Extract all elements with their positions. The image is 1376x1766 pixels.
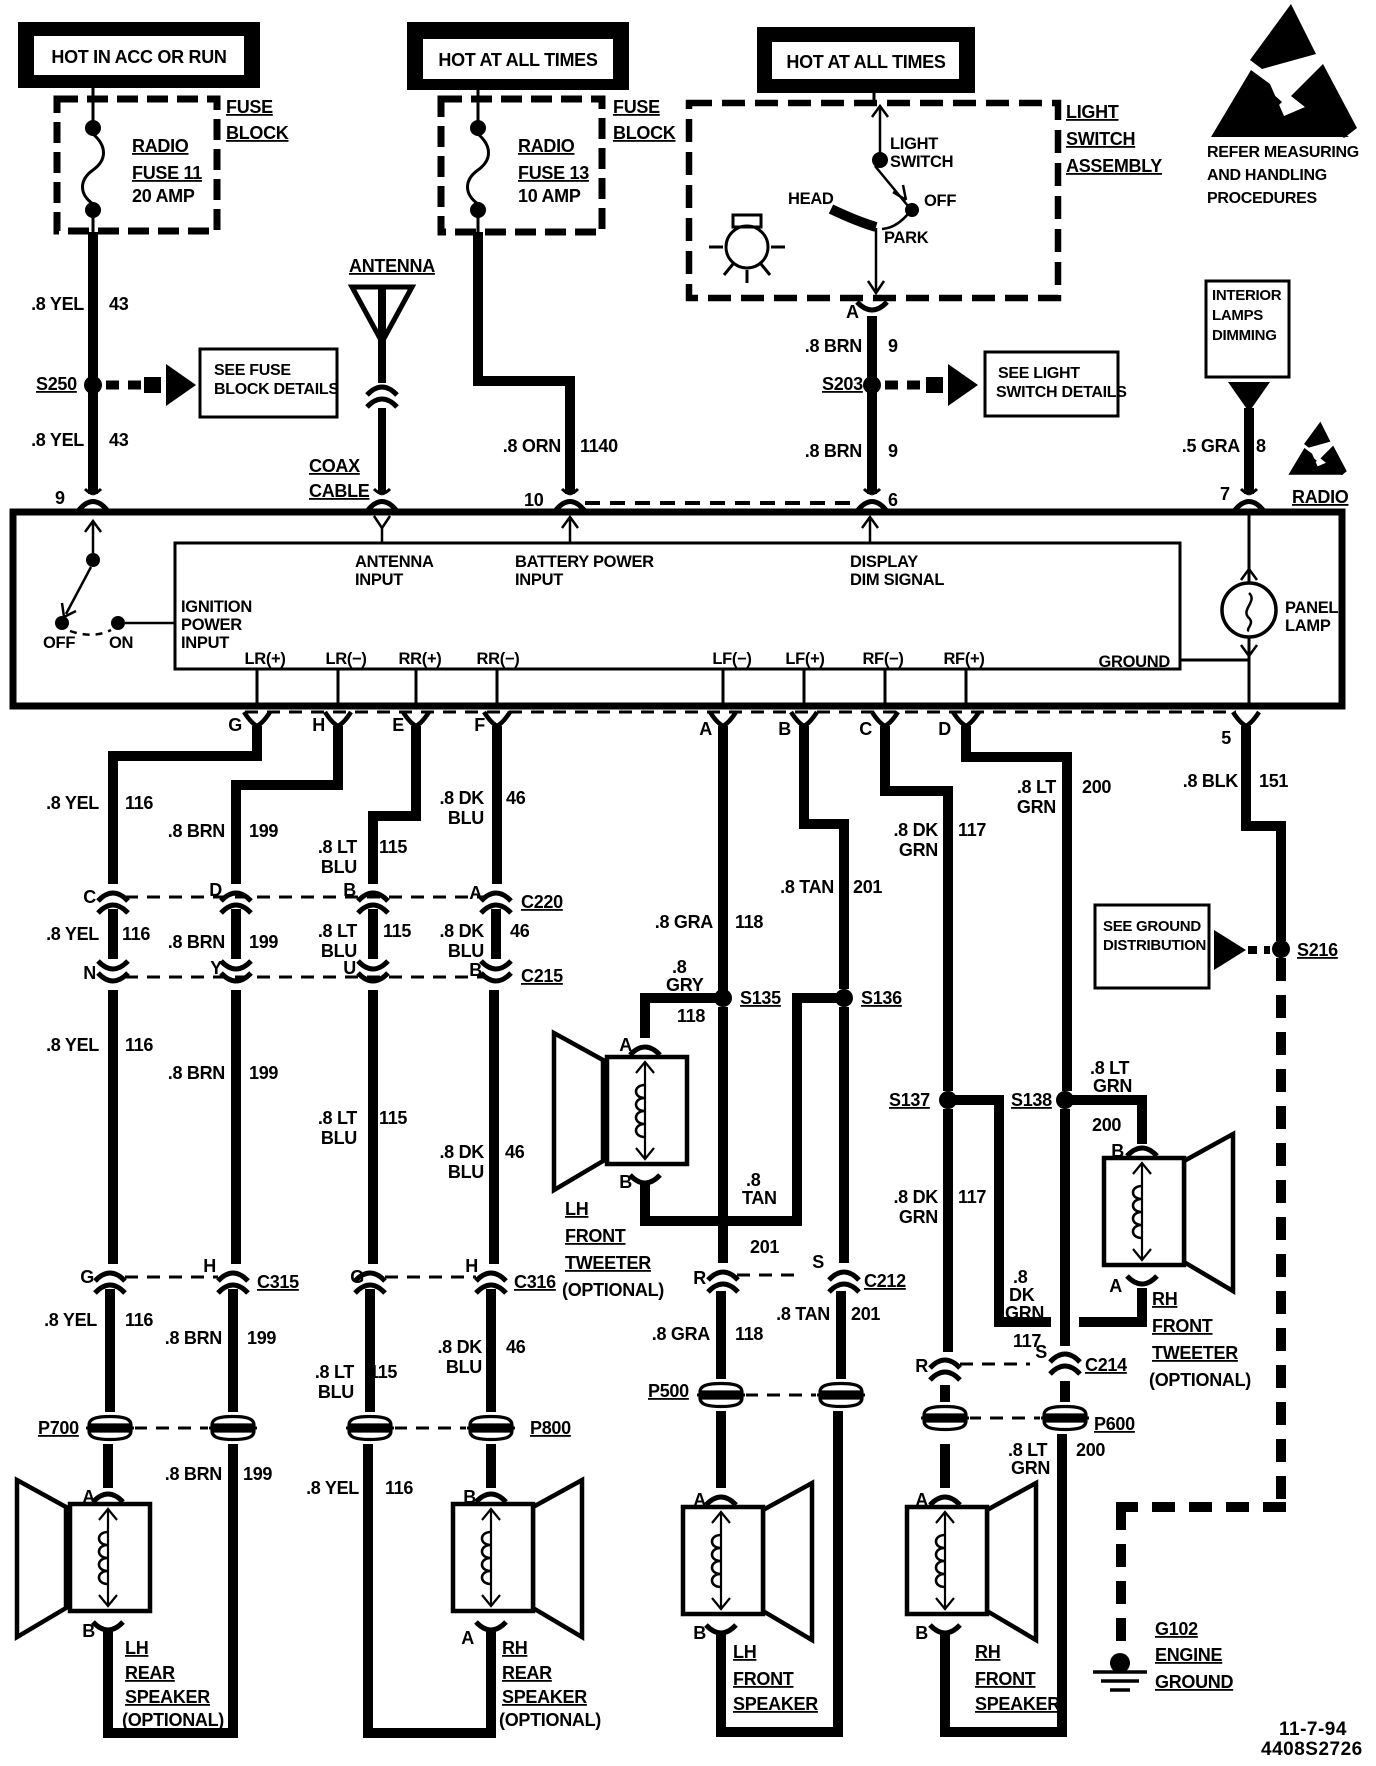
svg-text:.8 BRN: .8 BRN [165, 1464, 222, 1484]
svg-text:.8 YEL: .8 YEL [46, 793, 99, 813]
svg-text:B: B [469, 960, 482, 980]
svg-text:.8 LT: .8 LT [315, 1362, 354, 1382]
svg-text:FRONT: FRONT [565, 1226, 626, 1246]
svg-text:SWITCH: SWITCH [1066, 129, 1135, 149]
svg-text:6: 6 [888, 490, 898, 510]
svg-text:S135: S135 [740, 988, 781, 1008]
svg-text:116: 116 [125, 1310, 153, 1330]
svg-text:.8 BLK: .8 BLK [1183, 771, 1239, 791]
svg-text:SPEAKER: SPEAKER [975, 1694, 1060, 1714]
svg-text:P800: P800 [530, 1418, 571, 1438]
svg-text:S203: S203 [822, 374, 863, 394]
svg-text:ON: ON [109, 634, 133, 652]
svg-text:BLOCK DETAILS: BLOCK DETAILS [214, 381, 339, 398]
svg-text:201: 201 [851, 1304, 880, 1324]
svg-text:FRONT: FRONT [975, 1669, 1036, 1689]
svg-text:RR(+): RR(+) [399, 650, 442, 668]
svg-text:Y: Y [210, 958, 222, 978]
svg-text:DIMMING: DIMMING [1212, 327, 1277, 344]
svg-text:TWEETER: TWEETER [1152, 1343, 1238, 1363]
svg-text:.8 LT: .8 LT [1090, 1058, 1129, 1078]
svg-text:H: H [465, 1256, 478, 1276]
svg-text:BATTERY POWER: BATTERY POWER [515, 553, 654, 571]
svg-text:9: 9 [888, 336, 898, 356]
svg-text:REFER MEASURING: REFER MEASURING [1207, 144, 1359, 161]
svg-text:199: 199 [247, 1328, 276, 1348]
svg-text:OFF: OFF [924, 192, 956, 210]
svg-text:PROCEDURES: PROCEDURES [1207, 190, 1318, 207]
svg-text:BLU: BLU [321, 857, 357, 877]
svg-text:B: B [463, 1487, 476, 1507]
svg-text:SWITCH: SWITCH [890, 153, 953, 171]
svg-text:B: B [619, 1172, 632, 1192]
svg-text:200: 200 [1092, 1115, 1121, 1135]
svg-text:S: S [812, 1252, 824, 1272]
svg-text:116: 116 [125, 793, 153, 813]
svg-text:8: 8 [1256, 436, 1266, 456]
svg-text:HEAD: HEAD [788, 190, 834, 208]
svg-text:9: 9 [888, 441, 898, 461]
svg-text:LH: LH [125, 1638, 148, 1658]
svg-text:LAMPS: LAMPS [1212, 307, 1263, 324]
svg-text:115: 115 [379, 1108, 407, 1128]
svg-text:.8 LT: .8 LT [1017, 777, 1056, 797]
svg-text:C316: C316 [514, 1272, 556, 1292]
svg-text:200: 200 [1076, 1440, 1105, 1460]
svg-text:.8 LT: .8 LT [318, 1108, 357, 1128]
svg-text:ASSEMBLY: ASSEMBLY [1066, 156, 1162, 176]
svg-text:199: 199 [243, 1464, 272, 1484]
svg-text:R: R [915, 1356, 928, 1376]
svg-text:RF(−): RF(−) [862, 650, 903, 668]
svg-text:RH: RH [975, 1642, 1000, 1662]
svg-text:.8: .8 [746, 1170, 761, 1190]
svg-text:.8 TAN: .8 TAN [776, 1304, 830, 1324]
svg-text:FUSE 11: FUSE 11 [132, 163, 202, 183]
svg-text:REAR: REAR [502, 1663, 552, 1683]
svg-text:N: N [83, 963, 96, 983]
svg-text:200: 200 [1082, 777, 1111, 797]
svg-text:CABLE: CABLE [309, 481, 370, 501]
svg-text:SPEAKER: SPEAKER [733, 1694, 818, 1714]
svg-text:.8 BRN: .8 BRN [168, 821, 225, 841]
svg-text:LIGHT: LIGHT [890, 135, 938, 153]
svg-text:P500: P500 [648, 1381, 689, 1401]
svg-text:5: 5 [1221, 728, 1231, 748]
svg-text:D: D [938, 719, 951, 739]
svg-text:DIM SIGNAL: DIM SIGNAL [850, 571, 944, 589]
svg-text:LF(+): LF(+) [785, 650, 824, 668]
svg-text:LIGHT: LIGHT [1066, 102, 1119, 122]
svg-text:.8: .8 [1013, 1267, 1028, 1287]
svg-text:115: 115 [369, 1362, 397, 1382]
svg-text:46: 46 [506, 788, 526, 808]
svg-text:B: B [915, 1623, 928, 1643]
svg-text:118: 118 [677, 1006, 705, 1026]
svg-text:DISTRIBUTION: DISTRIBUTION [1103, 937, 1206, 954]
svg-text:.8 YEL: .8 YEL [44, 1310, 97, 1330]
svg-text:BLOCK: BLOCK [226, 123, 289, 143]
svg-text:D: D [209, 880, 222, 900]
svg-text:A: A [1109, 1276, 1122, 1296]
svg-text:SEE GROUND: SEE GROUND [1103, 918, 1201, 935]
svg-text:SPEAKER: SPEAKER [502, 1687, 587, 1707]
svg-text:GRN: GRN [899, 1207, 938, 1227]
svg-text:LAMP: LAMP [1285, 617, 1331, 635]
svg-text:151: 151 [1259, 771, 1288, 791]
svg-text:GRN: GRN [1005, 1303, 1044, 1323]
svg-text:C215: C215 [521, 966, 563, 986]
svg-text:.8 YEL: .8 YEL [306, 1478, 359, 1498]
svg-text:118: 118 [735, 1324, 763, 1344]
svg-text:B: B [778, 719, 791, 739]
svg-text:.8 LT: .8 LT [318, 837, 357, 857]
svg-text:E: E [392, 715, 404, 735]
svg-text:BLOCK: BLOCK [613, 123, 676, 143]
svg-text:.8 DK: .8 DK [439, 788, 484, 808]
svg-text:199: 199 [249, 821, 278, 841]
svg-text:FUSE: FUSE [226, 97, 273, 117]
svg-text:SWITCH DETAILS: SWITCH DETAILS [996, 384, 1127, 401]
svg-text:FRONT: FRONT [733, 1669, 794, 1689]
svg-text:A: A [699, 719, 712, 739]
svg-text:INPUT: INPUT [355, 571, 403, 589]
svg-text:.8 LT: .8 LT [318, 921, 357, 941]
svg-text:LH: LH [733, 1642, 756, 1662]
svg-text:DK: DK [1009, 1285, 1035, 1305]
svg-text:SPEAKER: SPEAKER [125, 1687, 210, 1707]
svg-text:P600: P600 [1094, 1414, 1135, 1434]
svg-text:RH: RH [502, 1638, 527, 1658]
svg-text:.8 DK: .8 DK [893, 820, 938, 840]
svg-text:A: A [82, 1487, 95, 1507]
svg-text:H: H [312, 715, 325, 735]
svg-text:.8 DK: .8 DK [439, 921, 484, 941]
svg-text:RADIO: RADIO [132, 136, 189, 156]
svg-text:116: 116 [385, 1478, 413, 1498]
svg-text:S136: S136 [861, 988, 902, 1008]
svg-text:GRY: GRY [666, 975, 704, 995]
svg-text:B: B [693, 1623, 706, 1643]
svg-text:FUSE: FUSE [613, 97, 660, 117]
svg-text:46: 46 [510, 921, 530, 941]
svg-text:.8 DK: .8 DK [893, 1187, 938, 1207]
svg-text:INPUT: INPUT [181, 634, 229, 652]
svg-text:.8 DK: .8 DK [437, 1337, 482, 1357]
svg-text:RF(+): RF(+) [943, 650, 984, 668]
svg-text:(OPTIONAL): (OPTIONAL) [122, 1710, 224, 1730]
svg-text:1140: 1140 [580, 436, 618, 456]
svg-text:7: 7 [1220, 484, 1230, 504]
svg-text:115: 115 [383, 921, 411, 941]
svg-text:C220: C220 [521, 892, 563, 912]
svg-text:TAN: TAN [742, 1188, 777, 1208]
svg-text:LR(−): LR(−) [325, 650, 366, 668]
svg-text:A: A [619, 1035, 632, 1055]
svg-text:INTERIOR: INTERIOR [1212, 287, 1282, 304]
svg-text:H: H [203, 1256, 216, 1276]
svg-text:PARK: PARK [884, 229, 929, 247]
svg-text:20 AMP: 20 AMP [132, 186, 195, 206]
svg-text:A: A [693, 1490, 706, 1510]
svg-text:.8 GRA: .8 GRA [652, 1324, 711, 1344]
svg-text:.5 GRA: .5 GRA [1182, 436, 1241, 456]
svg-text:ANTENNA: ANTENNA [349, 256, 435, 276]
svg-text:HOT AT ALL TIMES: HOT AT ALL TIMES [786, 52, 945, 72]
svg-text:HOT IN ACC OR RUN: HOT IN ACC OR RUN [51, 47, 226, 67]
svg-text:118: 118 [735, 912, 763, 932]
svg-text:BLU: BLU [448, 941, 484, 961]
svg-text:DISPLAY: DISPLAY [850, 553, 918, 571]
svg-text:TWEETER: TWEETER [565, 1253, 651, 1273]
svg-text:(OPTIONAL): (OPTIONAL) [1149, 1370, 1251, 1390]
svg-text:RH: RH [1152, 1289, 1177, 1309]
svg-text:B: B [82, 1621, 95, 1641]
svg-text:.8 ORN: .8 ORN [503, 436, 561, 456]
svg-text:9: 9 [55, 488, 65, 508]
svg-text:GROUND: GROUND [1098, 653, 1170, 671]
svg-text:RADIO: RADIO [1292, 487, 1349, 507]
svg-text:43: 43 [109, 294, 129, 314]
svg-text:.8 BRN: .8 BRN [805, 336, 862, 356]
svg-text:A: A [846, 302, 859, 322]
svg-text:GROUND: GROUND [1155, 1672, 1233, 1692]
svg-text:A: A [469, 883, 482, 903]
svg-text:.8 BRN: .8 BRN [168, 1063, 225, 1083]
svg-text:116: 116 [122, 924, 150, 944]
svg-text:G: G [228, 715, 242, 735]
svg-text:A: A [915, 1490, 928, 1510]
svg-text:G102: G102 [1155, 1619, 1198, 1639]
svg-text:SEE FUSE: SEE FUSE [214, 362, 291, 379]
svg-text:G: G [80, 1267, 94, 1287]
svg-text:117: 117 [958, 820, 986, 840]
svg-text:PANEL: PANEL [1285, 599, 1338, 617]
svg-text:46: 46 [505, 1142, 525, 1162]
svg-text:LH: LH [565, 1199, 588, 1219]
svg-text:GRN: GRN [1017, 797, 1056, 817]
svg-text:G: G [350, 1267, 364, 1287]
svg-text:A: A [461, 1628, 474, 1648]
svg-text:43: 43 [109, 430, 129, 450]
svg-text:.8 YEL: .8 YEL [46, 924, 99, 944]
svg-text:S138: S138 [1011, 1090, 1052, 1110]
svg-text:RADIO: RADIO [518, 136, 575, 156]
svg-text:COAX: COAX [309, 456, 360, 476]
svg-text:.8 BRN: .8 BRN [168, 932, 225, 952]
svg-text:LF(−): LF(−) [712, 650, 751, 668]
svg-text:.8 TAN: .8 TAN [780, 877, 834, 897]
svg-text:.8 YEL: .8 YEL [31, 430, 84, 450]
svg-text:INPUT: INPUT [515, 571, 563, 589]
svg-text:.8 DK: .8 DK [439, 1142, 484, 1162]
svg-text:SEE LIGHT: SEE LIGHT [998, 365, 1080, 382]
svg-text:(OPTIONAL): (OPTIONAL) [562, 1280, 664, 1300]
svg-text:.8 LT: .8 LT [1008, 1440, 1047, 1460]
svg-text:P700: P700 [38, 1418, 79, 1438]
svg-text:117: 117 [958, 1187, 986, 1207]
svg-text:201: 201 [853, 877, 882, 897]
svg-text:.8 YEL: .8 YEL [46, 1035, 99, 1055]
svg-text:ANTENNA: ANTENNA [355, 553, 434, 571]
svg-text:BLU: BLU [318, 1382, 354, 1402]
svg-text:ENGINE: ENGINE [1155, 1645, 1223, 1665]
svg-text:.8 GRA: .8 GRA [655, 912, 714, 932]
svg-text:AND HANDLING: AND HANDLING [1207, 167, 1327, 184]
svg-text:C: C [83, 887, 96, 907]
svg-text:B: B [343, 880, 356, 900]
svg-text:FUSE 13: FUSE 13 [518, 163, 589, 183]
svg-text:OFF: OFF [43, 634, 75, 652]
svg-text:F: F [474, 715, 485, 735]
svg-text:GRN: GRN [1011, 1458, 1050, 1478]
svg-text:S216: S216 [1297, 940, 1338, 960]
svg-text:201: 201 [750, 1237, 779, 1257]
svg-text:11-7-94: 11-7-94 [1279, 1719, 1347, 1740]
svg-text:10 AMP: 10 AMP [518, 186, 581, 206]
svg-text:RR(−): RR(−) [477, 650, 520, 668]
svg-text:(OPTIONAL): (OPTIONAL) [499, 1710, 601, 1730]
svg-text:S: S [1035, 1342, 1047, 1362]
svg-text:.8 BRN: .8 BRN [165, 1328, 222, 1348]
svg-text:4408S2726: 4408S2726 [1261, 1739, 1363, 1760]
svg-text:IGNITION: IGNITION [181, 598, 252, 616]
svg-text:BLU: BLU [446, 1357, 482, 1377]
svg-text:.8: .8 [672, 957, 687, 977]
svg-text:REAR: REAR [125, 1663, 175, 1683]
svg-text:.8 YEL: .8 YEL [31, 294, 84, 314]
svg-text:BLU: BLU [448, 1162, 484, 1182]
svg-text:POWER: POWER [181, 616, 242, 634]
svg-text:199: 199 [249, 1063, 278, 1083]
svg-text:R: R [693, 1268, 706, 1288]
svg-text:HOT AT ALL TIMES: HOT AT ALL TIMES [438, 50, 597, 70]
svg-text:LR(+): LR(+) [244, 650, 285, 668]
svg-text:.8 BRN: .8 BRN [805, 441, 862, 461]
svg-text:GRN: GRN [1093, 1076, 1132, 1096]
svg-text:S137: S137 [889, 1090, 930, 1110]
svg-text:115: 115 [379, 837, 407, 857]
svg-text:BLU: BLU [321, 1128, 357, 1148]
svg-text:C: C [859, 719, 872, 739]
svg-text:C315: C315 [257, 1272, 299, 1292]
svg-text:U: U [343, 958, 356, 978]
svg-text:B: B [1111, 1141, 1124, 1161]
svg-text:199: 199 [249, 932, 278, 952]
svg-text:C214: C214 [1085, 1355, 1127, 1375]
svg-text:C212: C212 [864, 1271, 906, 1291]
svg-text:FRONT: FRONT [1152, 1316, 1213, 1336]
svg-text:BLU: BLU [321, 941, 357, 961]
svg-text:10: 10 [524, 490, 544, 510]
svg-text:46: 46 [506, 1337, 526, 1357]
svg-text:116: 116 [125, 1035, 153, 1055]
svg-text:BLU: BLU [448, 808, 484, 828]
svg-text:GRN: GRN [899, 840, 938, 860]
svg-text:S250: S250 [36, 374, 77, 394]
